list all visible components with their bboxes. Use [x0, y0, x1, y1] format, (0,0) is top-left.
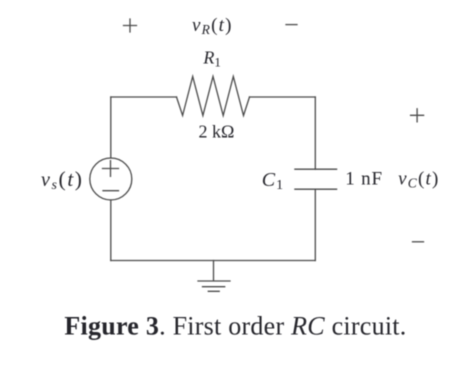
- voltage source plus mark: [103, 161, 119, 177]
- svg-text:vR(t): vR(t): [192, 15, 233, 37]
- label R1 (resistor designator): [202, 48, 221, 70]
- wire: right vertical lower (C1 to bottom rail): [314, 189, 316, 260]
- svg-text:vC(t): vC(t): [398, 169, 439, 191]
- capacitor C1 top plate: [295, 168, 337, 170]
- wire: top horizontal right segment (R1 to capacitor branch): [250, 96, 316, 98]
- capacitor C1 bottom plate: [295, 188, 337, 190]
- wire: top horizontal left segment (source node to R1): [111, 96, 177, 98]
- polarity minus mark for vR (top right): [286, 24, 297, 26]
- svg-text:R1: R1: [202, 48, 221, 70]
- label vR(t) (top voltage label): [192, 15, 233, 37]
- label vs(t) (source voltage): [41, 167, 84, 193]
- wire: left vertical lower (source to bottom rail): [110, 200, 112, 261]
- voltage source Vs circle: [90, 158, 132, 200]
- polarity minus mark for vC (right bottom): [413, 241, 424, 243]
- svg-text:vs(t): vs(t): [41, 167, 84, 193]
- label vC(t) (capacitor voltage): [398, 169, 439, 191]
- resistor R1 zigzag: [177, 77, 250, 116]
- svg-text:1 nF: 1 nF: [345, 169, 383, 190]
- ground symbol: [198, 261, 230, 292]
- svg-text:2 kΩ: 2 kΩ: [199, 122, 235, 142]
- voltage source minus mark: [103, 190, 119, 192]
- label C1 (capacitor designator): [262, 169, 284, 193]
- label 2 kOhm (resistor value): [199, 122, 235, 142]
- polarity plus mark for vC (right top): [411, 109, 424, 122]
- svg-text:Figure 3. First order RC circu: Figure 3. First order RC circuit.: [64, 311, 406, 340]
- label 1 nF (capacitor value): [345, 169, 383, 190]
- wire: left vertical upper (top node down to source): [110, 97, 112, 158]
- svg-text:C1: C1: [262, 169, 284, 193]
- polarity plus mark for vR (top left): [124, 19, 137, 32]
- caption: Figure 3. First order RC circuit.: [64, 311, 406, 340]
- wire: bottom horizontal rail: [111, 260, 315, 262]
- wire: right vertical upper (top node to C1): [314, 97, 316, 169]
